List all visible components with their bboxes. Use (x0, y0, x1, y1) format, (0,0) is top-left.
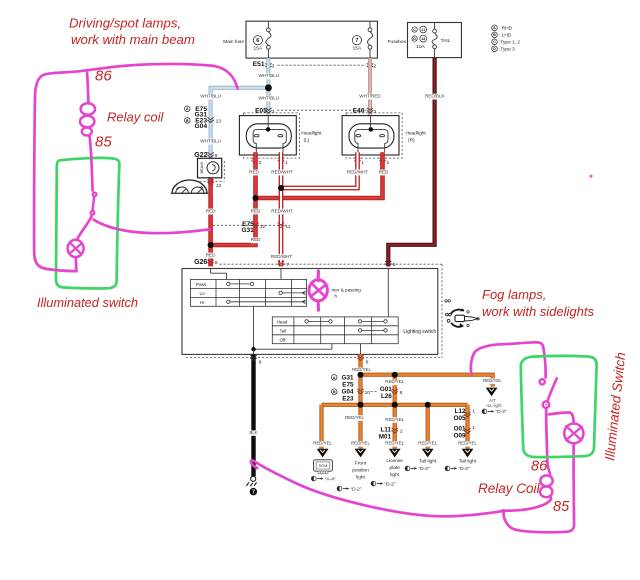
tail light 2 label (459, 459, 477, 465)
svg-text:8: 8 (366, 360, 369, 366)
note relay coil right (478, 481, 541, 496)
magenta switch lever right (548, 378, 557, 400)
svg-text:5: 5 (393, 262, 396, 268)
connector L12 O05 pin 1 (454, 408, 476, 422)
wire RED/YEL branch2 vertical (358, 375, 362, 449)
svg-text:12: 12 (216, 183, 222, 189)
junction RED/WHT (278, 185, 284, 191)
label RED/WHT below pin11 (271, 254, 293, 260)
svg-text:RED/WHT: RED/WHT (271, 254, 293, 259)
goto D-2 tail light 2 (445, 466, 470, 472)
label RED/WHT under E05 pin1 (271, 169, 293, 175)
svg-text:RED/YEL: RED/YEL (385, 441, 404, 446)
magenta wire ground to junction (251, 460, 504, 516)
label RED/YEL branch4 low (417, 441, 438, 447)
svg-text:10: 10 (365, 390, 371, 396)
svg-text:B: B (493, 33, 496, 37)
svg-text:O05: O05 (454, 415, 466, 422)
svg-text:86: 86 (95, 68, 112, 85)
svg-text:light: light (356, 475, 365, 481)
note illuminated switch right (vertical) (602, 352, 628, 462)
label RED/YEL at A/T ILL (482, 378, 503, 384)
label RED/YEL at pin8 (351, 367, 372, 373)
magenta switch terminal right (543, 401, 549, 407)
magenta relay coil right (540, 475, 553, 499)
arrow to tail light 1 (422, 449, 434, 458)
svg-text:Relay Coil: Relay Coil (478, 481, 541, 496)
svg-text:Headlight: Headlight (406, 130, 427, 136)
lighting switch pin 9 (250, 355, 261, 365)
svg-text:85: 85 (553, 499, 570, 515)
indicator G22 BEAM (194, 152, 224, 181)
svg-text:8: 8 (215, 260, 218, 266)
svg-text:15A: 15A (353, 45, 362, 51)
dimmer contact Hi (227, 300, 306, 304)
svg-text:light: light (390, 472, 399, 478)
label RED/YEL branch1 (312, 441, 333, 447)
fuse 7 15A (352, 21, 372, 58)
svg-text:7: 7 (286, 262, 289, 268)
svg-text:1: 1 (285, 160, 288, 166)
svg-text:Pass: Pass (196, 282, 207, 287)
svg-text:2: 2 (386, 160, 389, 166)
label RED below pin12 (250, 237, 261, 243)
svg-text:7: 7 (355, 38, 358, 44)
svg-text:: LHD: : LHD (499, 33, 512, 39)
goto D-2 license plate (371, 481, 396, 487)
label WHT/BLU left branch lower (200, 139, 221, 145)
main switch contacts Head (305, 320, 387, 323)
label RED/WHT under E40 pin1 (347, 169, 369, 175)
svg-text:3: 3 (373, 109, 376, 115)
svg-text:Fog lamps,: Fog lamps, (482, 287, 546, 302)
dimmer switch table (191, 279, 307, 306)
wire BLK to ground (251, 354, 255, 476)
svg-text:WHT/BLU: WHT/BLU (258, 73, 279, 78)
wire RED/BLK from TAIL fuse to lighting switch pin5 (388, 58, 434, 267)
ground symbol (246, 476, 257, 495)
svg-text:L11: L11 (380, 427, 391, 434)
svg-text:Lo: Lo (200, 291, 206, 296)
arrow to tail light 2 (462, 449, 474, 458)
svg-text:Tail: Tail (280, 328, 287, 333)
svg-text:E75: E75 (342, 382, 354, 389)
internal wire pin8 to dimmer table (211, 269, 227, 280)
label RED/YEL branch3 upper (384, 379, 405, 385)
svg-text:(R): (R) (408, 137, 415, 143)
note driving/spot lamps line2 (71, 32, 195, 47)
svg-text:RED: RED (379, 169, 389, 174)
goto D-2 front position (337, 486, 362, 492)
magenta relay loop left (86 wire) (34, 64, 237, 271)
svg-text:D: D (413, 37, 416, 41)
wire RED/YEL lower distribution (322, 403, 468, 407)
magenta link switch to RED wire (94, 220, 210, 234)
svg-text:D: D (493, 47, 496, 51)
wire RED down to E75/G31 pin12 and corner (211, 198, 256, 245)
svg-text::Type 1, 2: :Type 1, 2 (499, 40, 520, 46)
svg-text:RED/YEL: RED/YEL (313, 441, 332, 446)
svg-text:RED/YEL: RED/YEL (418, 441, 437, 446)
svg-text:E23: E23 (342, 396, 354, 403)
magenta switch terminal lower left (91, 211, 95, 215)
svg-text:“D-2”: “D-2” (419, 466, 430, 472)
svg-text:85: 85 (95, 134, 112, 151)
fuse TAIL 10A (412, 23, 451, 58)
svg-text:RED/BLK: RED/BLK (425, 94, 446, 99)
svg-text:RED/YEL: RED/YEL (458, 441, 477, 446)
label RED/YEL branch3 mid (384, 417, 405, 423)
svg-text:RED/YEL: RED/YEL (385, 379, 404, 384)
svg-text:Tail light: Tail light (459, 459, 477, 465)
svg-text:RED/YEL: RED/YEL (351, 441, 370, 446)
connector G01 L26 pin 8 (371, 386, 403, 400)
lighting switch pin 5 (385, 261, 396, 268)
svg-text:“A-4”: “A-4” (325, 476, 336, 482)
svg-text:Front: Front (355, 461, 367, 467)
note 85 right (553, 499, 570, 515)
svg-text:10A: 10A (416, 44, 425, 50)
label RED/YEL branch2 low (350, 441, 371, 447)
arrow to A/T ILL light (486, 388, 498, 397)
note 86 left (95, 68, 112, 85)
svg-text:WHT/BLU: WHT/BLU (258, 96, 279, 101)
magenta wire to lamp left (78, 216, 93, 239)
svg-text:B: B (186, 119, 189, 123)
label BLK (249, 430, 258, 436)
fuse 6 15A (253, 21, 271, 58)
svg-text:G04: G04 (342, 389, 354, 396)
junction RED at 245 (208, 242, 214, 248)
svg-text:BEAM: BEAM (199, 162, 204, 173)
svg-text:Illuminated switch: Illuminated switch (37, 295, 138, 310)
svg-text:WHT/RED: WHT/RED (359, 94, 381, 99)
dimmer contact Lo (279, 291, 306, 295)
wire RED/YEL branch3 vertical (393, 375, 397, 449)
magenta fog link from RED/YEL to right switch (471, 342, 546, 377)
svg-text:86: 86 (531, 459, 548, 475)
svg-text:G04: G04 (195, 123, 208, 130)
magenta stray speck (589, 175, 592, 178)
E40 pin 1 (354, 158, 364, 166)
svg-text:RED: RED (206, 252, 216, 257)
wire WHT/BLU from fuse 6 to junction and E05 (266, 58, 270, 122)
svg-text:11: 11 (421, 28, 425, 32)
connector L11 M01 pin 2 (379, 427, 403, 441)
wire RED/YEL top distribution to A/T ILL (361, 375, 493, 387)
internal wire pin7 to dimmer table (280, 269, 282, 280)
svg-text:E40: E40 (353, 108, 365, 115)
note illuminated switch left (37, 295, 138, 310)
note driving/spot lamps line1 (69, 16, 181, 31)
svg-text:“D-2”: “D-2” (351, 486, 362, 492)
magenta junction blob bottom (502, 509, 506, 513)
green box right illuminated switch (521, 356, 597, 457)
lighting switch outer dashed boundary (186, 264, 442, 357)
junction RED headlights (253, 195, 259, 201)
junction WHT/BLU (265, 84, 272, 91)
magenta wire switch to relay coil right (546, 408, 550, 474)
svg-text:RED/YEL: RED/YEL (385, 417, 404, 422)
svg-text:O09: O09 (454, 432, 466, 439)
svg-text:G26: G26 (194, 259, 207, 266)
arrow to front position light (355, 449, 367, 458)
svg-text:h: h (335, 294, 338, 299)
svg-text:“D-3”: “D-3” (496, 409, 507, 415)
svg-text:A: A (186, 107, 189, 111)
svg-text:RED: RED (206, 208, 216, 213)
main fuse box (223, 21, 377, 58)
legend RHD/LHD/types (492, 25, 521, 53)
svg-text:B: B (333, 390, 336, 394)
svg-text:Off: Off (280, 337, 287, 342)
svg-text:BLK: BLK (250, 430, 258, 435)
tail light 1 label (419, 459, 437, 465)
svg-text:3: 3 (272, 64, 275, 70)
svg-text::Type 3: :Type 3 (499, 47, 515, 53)
magenta lamp output down and around (504, 443, 575, 532)
svg-text:2: 2 (400, 428, 403, 434)
note fog lamps line2 (482, 304, 594, 319)
wire RED G22 to G26 (208, 178, 213, 267)
main lighting switch table (272, 317, 398, 344)
svg-text:“D-2”: “D-2” (385, 481, 396, 487)
magenta relay coil left (80, 71, 95, 191)
instrument cluster icon (171, 180, 208, 193)
headlight E40 (R) (342, 108, 426, 159)
A/T ILL light label (486, 398, 502, 408)
lighting switch pin 8 RED/YEL (357, 355, 369, 365)
svg-text:WHT/BLU: WHT/BLU (200, 94, 221, 99)
svg-text:RED/YEL: RED/YEL (352, 367, 371, 372)
goto D-2 tail light 1 (405, 466, 430, 472)
svg-text:work with sidelights: work with sidelights (482, 304, 594, 319)
magenta wire switch to lamp right (549, 412, 574, 423)
svg-text:A: A (493, 26, 496, 30)
wire RED/YEL from lighting switch pin8 (358, 354, 362, 374)
svg-text:6: 6 (256, 38, 259, 44)
main switch contacts Tail (358, 329, 387, 332)
license plate light label (386, 458, 403, 478)
label RED under E40 pin2 (378, 169, 389, 175)
connector E75 G31 E23 G04 pin 13 (185, 106, 222, 130)
dimmer passing label (332, 287, 362, 298)
label WHT/BLU left branch upper (200, 94, 221, 100)
wire RED E05 pin2 to junction to E40 pin2 (256, 152, 383, 198)
label RED/WHT above pin11 (271, 208, 293, 214)
svg-text:L12: L12 (455, 408, 466, 415)
connector G31 E75 G04 E23 pin 10 (331, 374, 370, 402)
svg-text:7: 7 (252, 490, 255, 496)
label WHT/BLU lower (258, 96, 279, 102)
svg-text:position: position (352, 468, 369, 474)
svg-text:Hi: Hi (200, 300, 204, 305)
internal line Tail row to RED/YEL pin (360, 344, 362, 355)
svg-text:RED/YEL: RED/YEL (345, 415, 364, 420)
magenta lamp left (68, 240, 84, 257)
svg-text:15A: 15A (254, 45, 263, 51)
magenta switch lever left (93, 197, 95, 210)
label WHT/BLU upper (258, 73, 279, 79)
label RED/BLK (424, 94, 445, 100)
magenta lamp over dimmer table (309, 271, 327, 310)
svg-text:12: 12 (260, 224, 266, 230)
wire RED/WHT E05 pin1 to junction to E40 pin1 (281, 152, 358, 188)
connector E51 (253, 61, 377, 69)
fusebox (388, 23, 462, 58)
svg-text:RED: RED (251, 208, 261, 213)
magenta switch terminal upper left (93, 193, 97, 197)
svg-text:RED/WHT: RED/WHT (347, 169, 369, 174)
svg-text:DOM: DOM (319, 464, 327, 468)
svg-text:RED/YEL: RED/YEL (483, 378, 502, 383)
magenta lamp right (564, 424, 583, 444)
arrow to license plate light (389, 449, 401, 458)
svg-text:RED: RED (251, 237, 261, 242)
svg-text:L26: L26 (381, 393, 392, 400)
wire WHT/BLU branch to pin13/G22 (211, 88, 269, 159)
connector O01 O09 pin 1 (454, 425, 476, 439)
svg-text:Headlight: Headlight (301, 130, 322, 136)
wire RED/YEL branch5 vertical (465, 405, 469, 449)
green box left illuminated switch (56, 158, 119, 289)
svg-text:G01: G01 (380, 386, 392, 393)
svg-text:Main fuse: Main fuse (223, 39, 244, 45)
svg-text:work with main beam: work with main beam (71, 32, 195, 47)
svg-text:1: 1 (361, 160, 364, 166)
label RED below G22 (206, 208, 217, 214)
svg-text:RED/WHT: RED/WHT (271, 169, 293, 174)
label RED/YEL branch2 mid (344, 415, 365, 421)
svg-text:WHT/BLU: WHT/BLU (200, 139, 221, 144)
note relay coil left (107, 110, 164, 125)
svg-text:RED: RED (249, 169, 259, 174)
label WHT/RED (359, 94, 381, 100)
svg-text:Head: Head (277, 319, 288, 324)
E05 pin 2 (251, 158, 261, 166)
DOM module (314, 460, 333, 474)
wire RED/YEL branch4 vertical (426, 405, 430, 449)
E05 pin 1 (278, 158, 288, 166)
svg-text:2: 2 (259, 160, 262, 166)
wire RED/YEL branch1 vertical (319, 405, 323, 449)
svg-text:13: 13 (216, 118, 222, 124)
svg-text:G31: G31 (241, 227, 254, 234)
svg-text:TAIL: TAIL (441, 38, 451, 44)
svg-text:Tail light: Tail light (419, 459, 437, 465)
dimmer contact Pass (227, 282, 254, 285)
G22 pin 12 (207, 180, 221, 190)
note 86 right (531, 459, 548, 475)
label RED above G26 (206, 252, 217, 258)
lighting switch pin 7 (278, 261, 289, 268)
connector G26 pin 8 (194, 259, 218, 266)
label RED above pin12 (250, 208, 261, 214)
note fog lamps line1 (482, 287, 546, 302)
label RED under E05 pin2 (249, 169, 260, 175)
svg-text:3: 3 (272, 109, 275, 115)
svg-text:mer & passing: mer & passing (332, 287, 362, 292)
label RED/YEL branch5 low (457, 441, 478, 447)
goto A-4 (311, 476, 335, 482)
svg-text:2: 2 (373, 64, 376, 70)
internal common line to ground pin (251, 306, 332, 354)
connector E75 G31 pins 12 11 (209, 221, 291, 234)
front position light label (352, 461, 369, 481)
svg-text:11: 11 (285, 224, 290, 230)
magenta terminal loop right top (540, 379, 545, 384)
lighting switch box (182, 269, 438, 355)
svg-text:ILL light: ILL light (486, 403, 502, 408)
svg-text:“D-2”: “D-2” (459, 466, 470, 472)
svg-text:C: C (413, 28, 416, 32)
wire RED/WHT down to lighting switch pin7 (279, 188, 284, 266)
svg-text:13: 13 (421, 37, 425, 41)
svg-text:plate: plate (389, 465, 400, 471)
arrow to DOM (317, 449, 329, 458)
svg-text:RED/WHT: RED/WHT (271, 208, 293, 213)
svg-text:Relay coil: Relay coil (107, 110, 164, 125)
svg-text:C: C (493, 40, 496, 44)
junction dots RED/YEL (358, 372, 431, 408)
note 85 left (95, 134, 112, 151)
svg-text:G31: G31 (342, 374, 354, 381)
svg-text:9: 9 (259, 360, 262, 366)
svg-text:: RHD: : RHD (499, 26, 513, 32)
svg-text:License: License (386, 458, 403, 464)
svg-text:Driving/spot lamps,: Driving/spot lamps, (69, 16, 181, 31)
svg-text:E51: E51 (253, 61, 265, 68)
svg-text:8: 8 (400, 390, 403, 396)
E40 pin 2 (379, 158, 389, 166)
svg-text:1: 1 (472, 425, 475, 431)
magenta wire coil to junction (504, 499, 551, 511)
svg-text:Fusebox: Fusebox (388, 39, 407, 45)
wire WHT/RED fuse7 to E40 (368, 58, 372, 122)
svg-text:1: 1 (472, 409, 475, 415)
label RED/YEL branch3 low (384, 441, 405, 447)
lighting switch stalk icon (445, 300, 479, 327)
magenta lamp output to loop left (74, 257, 77, 271)
headlight E05 (L) (239, 108, 366, 159)
svg-text:A: A (333, 376, 336, 380)
goto D-3 A/T ILL (482, 409, 507, 415)
svg-text:(L): (L) (304, 137, 310, 143)
svg-text:Lighting switch: Lighting switch (403, 329, 436, 335)
internal wire pin5 to main switch table (387, 269, 389, 317)
